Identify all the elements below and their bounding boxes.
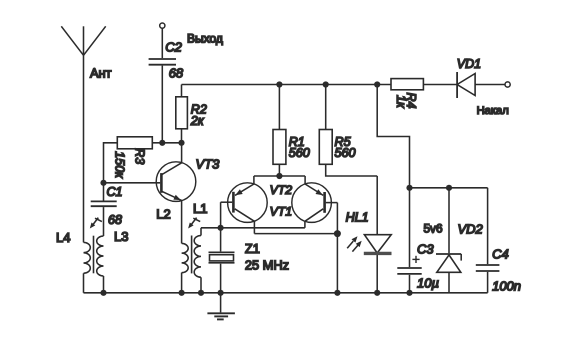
svg-text:HL1: HL1: [346, 210, 369, 224]
svg-text:VT3: VT3: [196, 157, 221, 172]
svg-text:C3: C3: [417, 242, 434, 257]
svg-text:C4: C4: [492, 247, 509, 262]
svg-text:VD2: VD2: [458, 221, 484, 236]
svg-text:VT2: VT2: [270, 183, 293, 197]
svg-text:L4: L4: [56, 230, 70, 245]
svg-text:68: 68: [169, 65, 184, 80]
svg-text:2к: 2к: [190, 114, 205, 128]
svg-text:C1: C1: [107, 185, 123, 199]
svg-text:560: 560: [289, 146, 310, 160]
svg-text:L3: L3: [114, 229, 128, 244]
svg-text:L1: L1: [193, 201, 207, 216]
svg-text:Накал: Накал: [477, 105, 509, 117]
svg-text:VT1: VT1: [270, 205, 293, 219]
svg-text:Ант: Ант: [90, 65, 112, 80]
svg-text:560: 560: [335, 146, 356, 160]
svg-text:VD1: VD1: [457, 57, 481, 71]
svg-text:Z1: Z1: [245, 241, 260, 256]
svg-text:R3: R3: [133, 148, 147, 164]
svg-text:C2: C2: [165, 40, 182, 55]
svg-text:L2: L2: [156, 207, 170, 222]
svg-text:25 MHz: 25 MHz: [245, 257, 289, 272]
svg-text:10µ: 10µ: [417, 275, 439, 290]
svg-text:100n: 100n: [492, 278, 521, 293]
svg-text:5v6: 5v6: [424, 221, 443, 235]
svg-text:150к: 150к: [113, 151, 127, 179]
svg-text:Выход: Выход: [187, 32, 223, 46]
svg-text:68: 68: [108, 213, 122, 227]
svg-text:1к: 1к: [394, 95, 408, 109]
